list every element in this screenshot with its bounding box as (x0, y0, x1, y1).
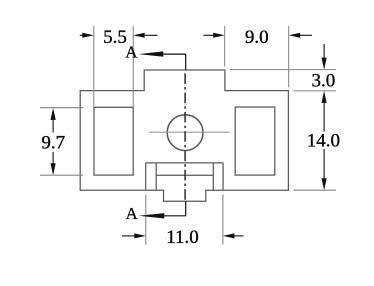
dimension 5.5 left arrow (82, 33, 94, 38)
dimension 11.0 left arrow (134, 233, 146, 238)
section arrow top (139, 51, 164, 56)
extension line 11.0 right (222, 195, 224, 245)
svg-text:11.0: 11.0 (166, 227, 199, 248)
dimension 11.0 left tail (122, 235, 135, 237)
dimension 9.7 up arrow (51, 108, 56, 120)
body outline (80, 70, 288, 201)
recess inner box shelf (156, 174, 213, 176)
dimension 14.0 up arrow (322, 91, 327, 103)
dimension 9.7 down arrow (51, 163, 56, 175)
svg-text:14.0: 14.0 (307, 131, 340, 152)
dimension 9.7 line upper (52, 119, 54, 133)
extension line 3.0 bottom (294, 90, 337, 92)
dimension 14.0 line lower (323, 149, 325, 179)
svg-text:3.0: 3.0 (312, 70, 336, 91)
section arrow top tail (163, 53, 185, 55)
center hole circle (167, 115, 203, 151)
recess right wall (222, 163, 224, 190)
dimension 9.0 right tail (300, 34, 312, 36)
left window (94, 107, 133, 175)
extension line 11.0 left (145, 195, 147, 245)
dimension 5.5 right tail (145, 34, 158, 36)
recess left wall (145, 163, 147, 190)
extension line 5.5 right (132, 26, 134, 107)
svg-text:A: A (126, 204, 139, 223)
section arrow bottom tail (164, 215, 185, 217)
dimension 5.5 right arrow (133, 33, 145, 38)
section line top stub (185, 54, 187, 70)
svg-text:9.0: 9.0 (245, 27, 269, 48)
dimension 3.0 upper tail (323, 44, 325, 58)
extension line 9.0 right (288, 26, 290, 87)
extension line 3.0 top (230, 69, 336, 71)
extension line 9.0 left (224, 26, 226, 66)
extension line 14.0 bottom (294, 189, 337, 191)
extension line 9.7 top (40, 107, 83, 109)
right window (235, 107, 275, 175)
section arrow bottom (139, 213, 165, 218)
extension line 9.7 bottom (40, 174, 83, 176)
connector recess top edge (146, 162, 223, 164)
dimension 9.0 left arrow (213, 33, 225, 38)
dimension 9.0 right arrow (289, 33, 301, 38)
extension line 5.5 left (93, 26, 95, 107)
dimension 3.0 down arrow (322, 58, 327, 70)
dimension 11.0 right tail (234, 235, 243, 237)
vertical centerline (dash-dot) (184, 70, 186, 201)
dimension 14.0 line upper (323, 102, 325, 132)
dimension 14.0 down arrow (322, 178, 327, 190)
svg-text:9.7: 9.7 (41, 133, 65, 154)
dimension 5.5 left tail (80, 34, 83, 36)
dimension 11.0 right arrow (223, 233, 235, 238)
dimension 9.7 line lower (52, 152, 54, 164)
section line bottom stub (185, 201, 187, 216)
dimension 9.0 left tail (203, 34, 213, 36)
svg-text:5.5: 5.5 (103, 27, 127, 48)
recess inner box left wall (155, 163, 157, 190)
recess inner box right wall (212, 163, 214, 190)
svg-text:A: A (125, 42, 138, 61)
horizontal centerline (149, 131, 230, 133)
